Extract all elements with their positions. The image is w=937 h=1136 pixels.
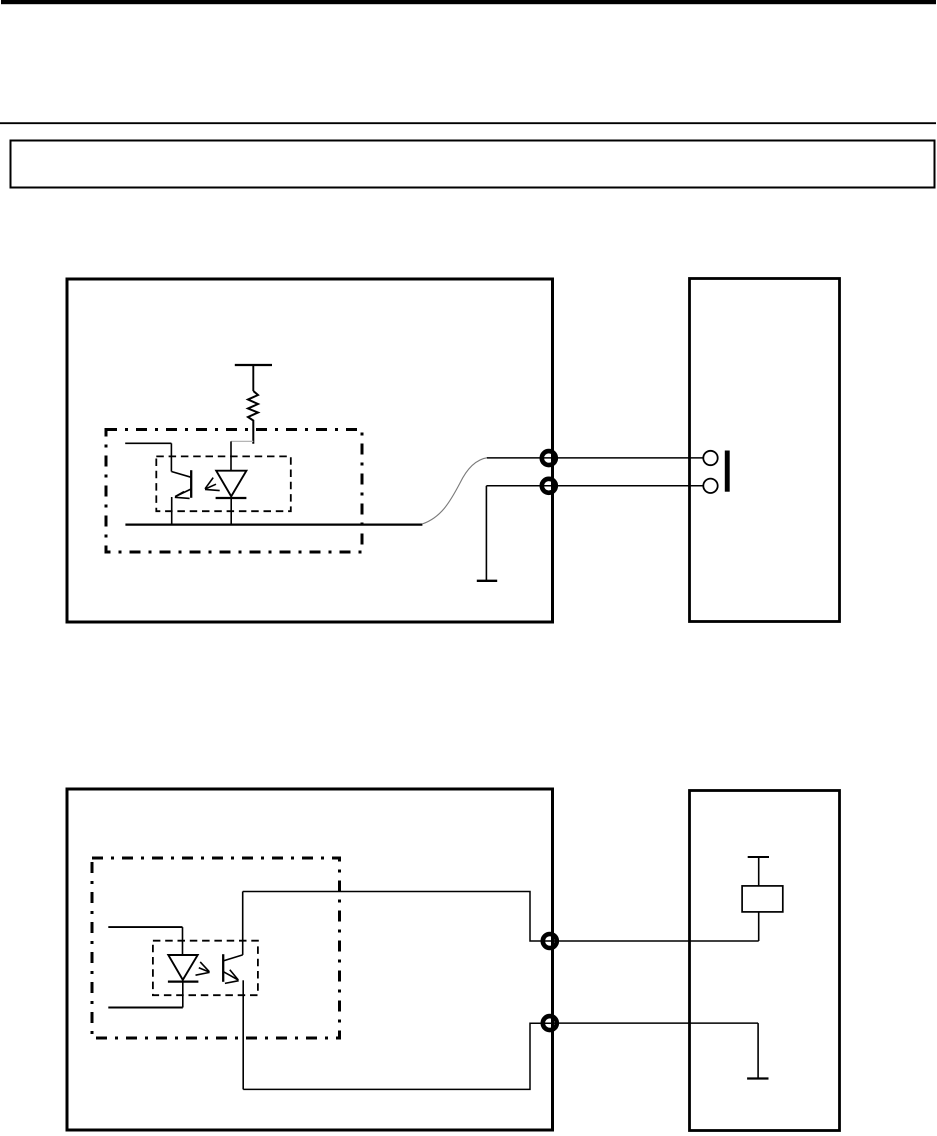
load resistor block (schematic 2)	[742, 857, 783, 941]
page header bar	[1, 0, 936, 4]
external device box (schematic 1)	[690, 279, 840, 622]
terminal T1 (schematic 1)	[542, 451, 556, 465]
wire curved output (schematic 1)	[422, 458, 487, 524]
optocoupler package outline (schematic 2)	[153, 941, 258, 996]
wire emitter rail to terminal (schematic 2)	[243, 1023, 553, 1089]
terminal T2 (schematic 1)	[542, 479, 556, 493]
horizontal rule	[0, 122, 936, 124]
wire terminal to ground (schematic 2)	[553, 1022, 758, 1024]
optocoupler package outline (schematic 1)	[156, 456, 290, 511]
switch contact bar (schematic 1)	[725, 451, 730, 492]
power rail symbol (schematic 1)	[235, 365, 272, 391]
resistor R (schematic 1)	[248, 391, 258, 444]
PLC side box (schematic 1)	[67, 279, 553, 622]
wire collector to terminal (schematic 2)	[243, 892, 553, 942]
wire bottom rail (schematic 1)	[125, 523, 422, 525]
LED D2 (schematic 2)	[108, 927, 198, 1007]
wire upper to terminal (schematic 1)	[487, 457, 703, 459]
wire terminal to load (schematic 2)	[553, 940, 759, 942]
contact pin circle lower (schematic 1)	[703, 479, 717, 493]
external device box (schematic 2)	[690, 791, 840, 1131]
terminal T3 (schematic 2)	[543, 934, 557, 948]
terminal T4 (schematic 2)	[543, 1016, 557, 1030]
contact pin circle upper (schematic 1)	[703, 451, 717, 465]
module dash-dot boundary (schematic 1)	[106, 430, 362, 553]
ground (schematic 2)	[747, 1023, 768, 1078]
LED D1 (schematic 1)	[216, 441, 247, 524]
light emission arrow (schematic 2)	[196, 962, 210, 975]
wire lower to terminal (schematic 1)	[486, 485, 703, 487]
ground (schematic 1)	[477, 486, 497, 581]
wire resistor to LED anode (faint)	[231, 440, 253, 442]
power rail symbol (schematic 2)	[748, 856, 769, 858]
PLC side box (schematic 2)	[67, 789, 553, 1130]
phototransistor Q1 (schematic 1)	[125, 443, 191, 524]
module dash-dot boundary (schematic 2)	[92, 858, 340, 1038]
light emission arrow (schematic 1)	[205, 478, 220, 491]
title box	[11, 141, 935, 188]
phototransistor Q2 (schematic 2)	[223, 892, 243, 1090]
